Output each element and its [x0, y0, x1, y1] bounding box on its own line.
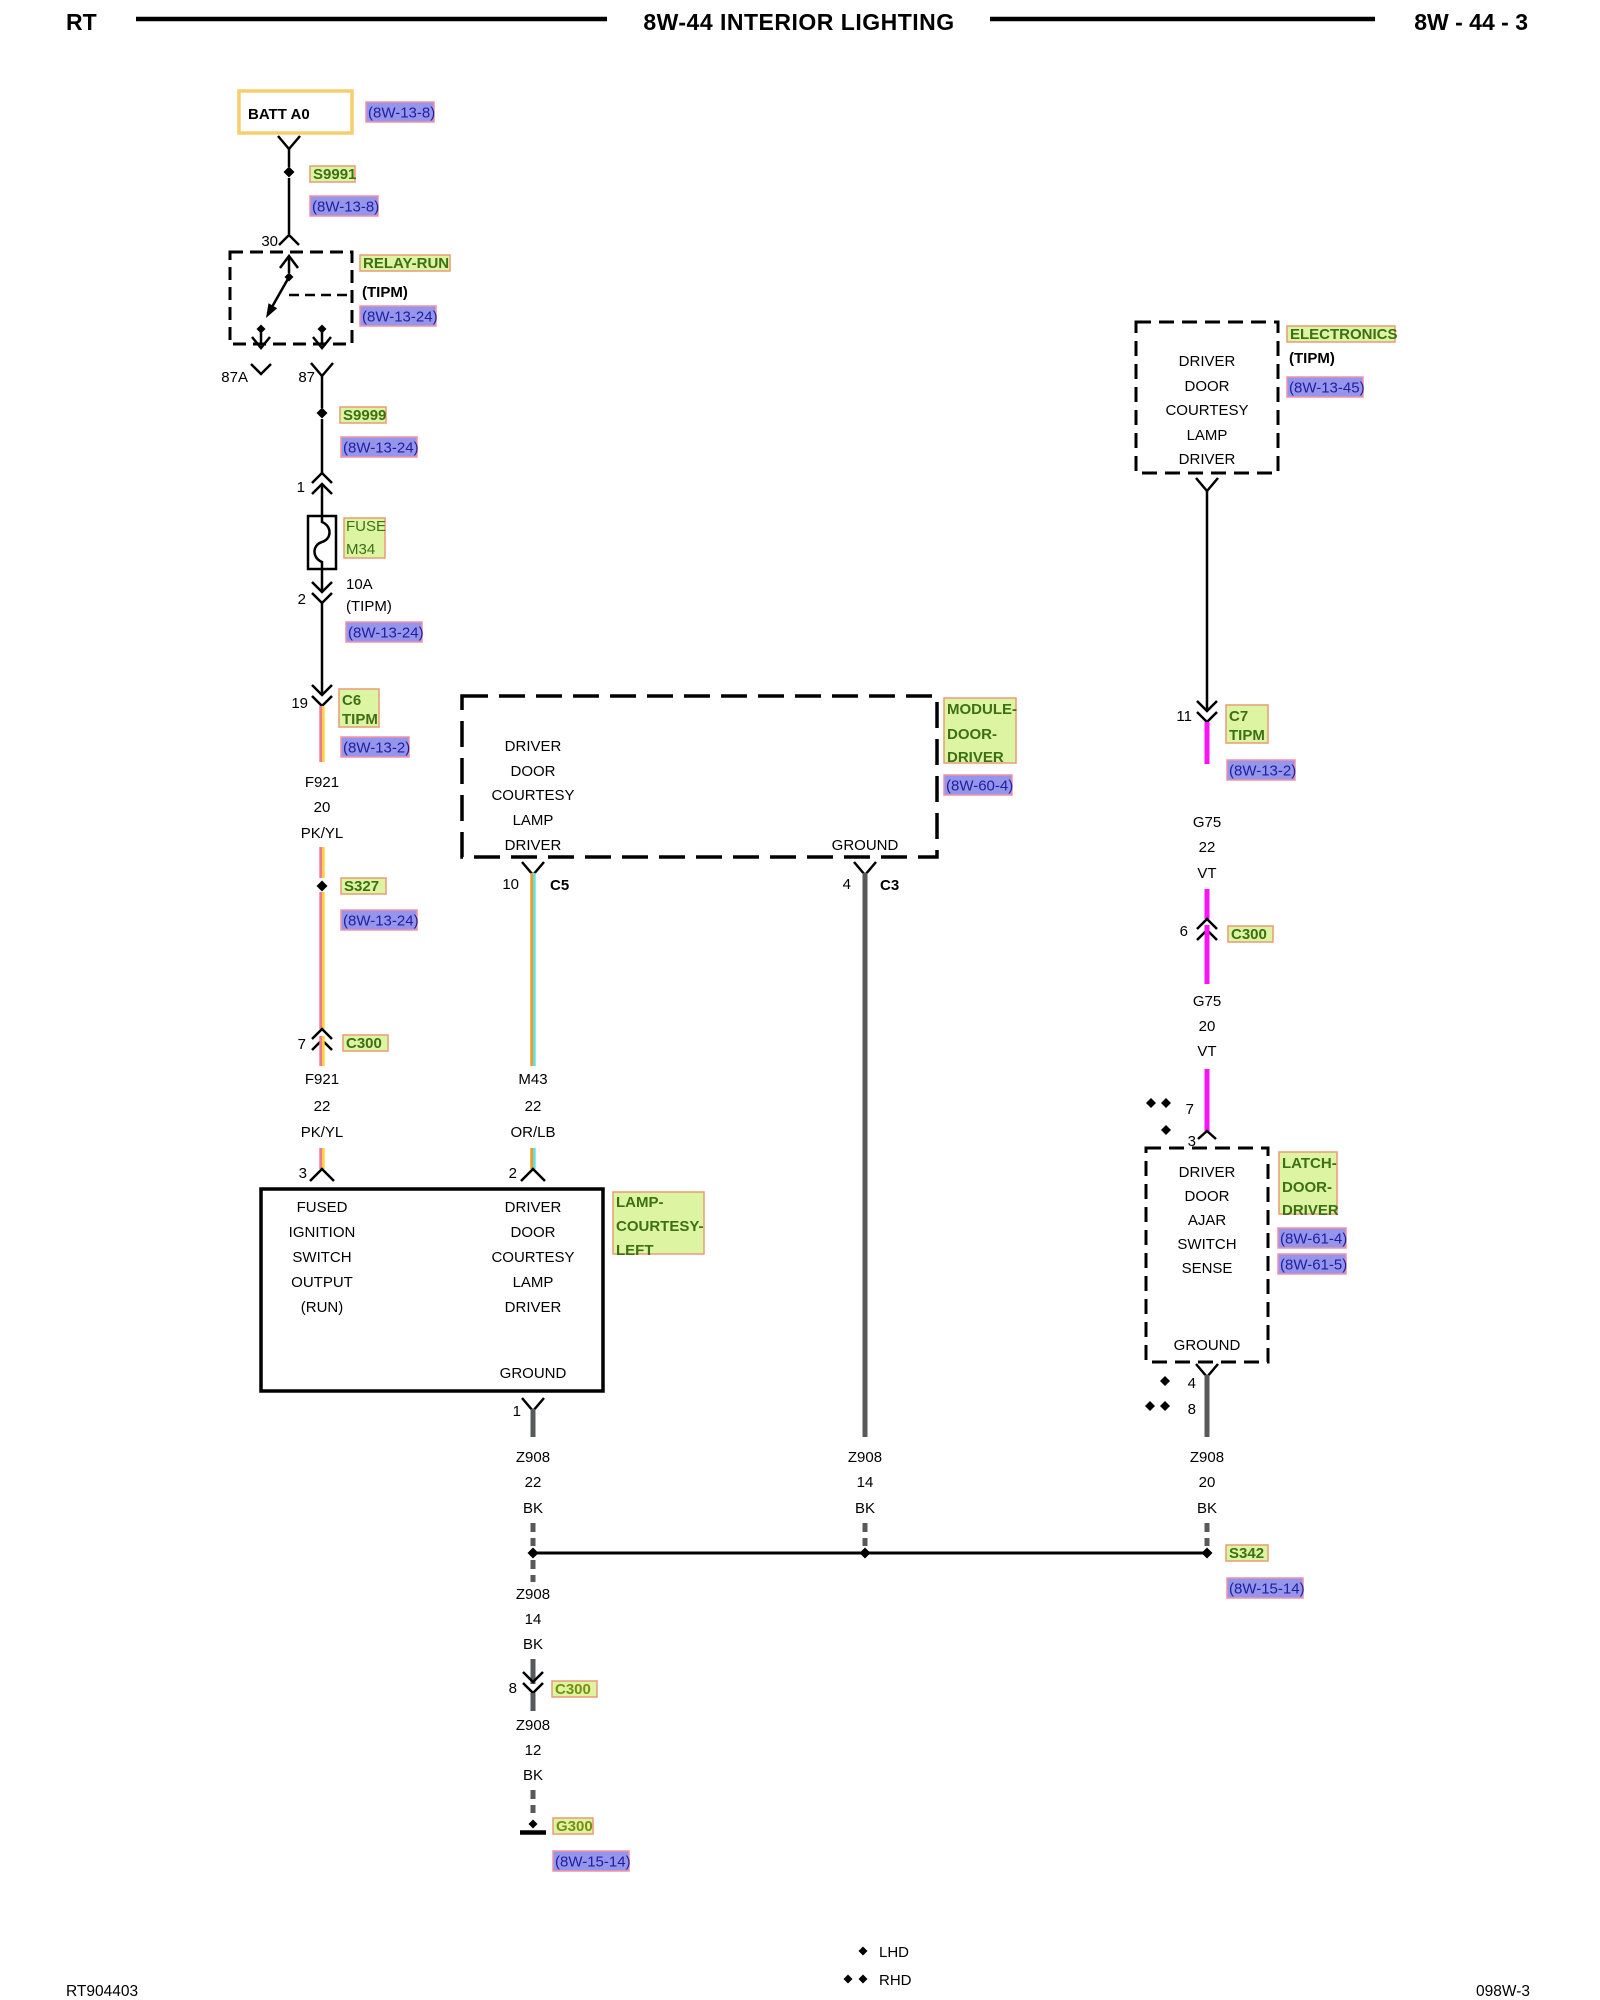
svg-text:20: 20: [1199, 1018, 1216, 1035]
wire segment: [319, 847, 322, 878]
svg-text:8: 8: [509, 1680, 517, 1697]
svg-text:RHD: RHD: [879, 1972, 912, 1989]
svg-text:LEFT: LEFT: [616, 1242, 654, 1259]
ground G300: [529, 1820, 538, 1829]
svg-text:10A: 10A: [346, 576, 373, 593]
svg-text:TIPM: TIPM: [342, 711, 378, 728]
svg-text:20: 20: [1199, 1474, 1216, 1491]
component label RELAY-RUN: [360, 255, 450, 271]
svg-text:LAMP: LAMP: [513, 1274, 554, 1291]
svg-text:(8W-61-4): (8W-61-4): [1280, 1231, 1347, 1248]
svg-text:LATCH-: LATCH-: [1282, 1155, 1337, 1172]
svg-text:VT: VT: [1197, 865, 1216, 882]
wire M43 22 OR/LB: [530, 873, 533, 1066]
svg-text:87A: 87A: [221, 369, 248, 386]
svg-text:(8W-13-24): (8W-13-24): [348, 625, 424, 642]
wire to fuse: [321, 484, 324, 516]
svg-text:14: 14: [525, 1611, 542, 1628]
legend RHD: [844, 1975, 853, 1984]
svg-text:(8W-15-14): (8W-15-14): [555, 1854, 631, 1871]
svg-text:(8W-15-14): (8W-15-14): [1229, 1581, 1305, 1598]
svg-text:S342: S342: [1229, 1545, 1264, 1562]
svg-text:22: 22: [525, 1098, 542, 1115]
reference label (8W-13-24): [341, 437, 417, 457]
svg-text:DRIVER: DRIVER: [505, 1299, 562, 1316]
svg-text:Z908: Z908: [516, 1449, 550, 1466]
connector Y below electronics: [1196, 478, 1218, 491]
svg-text:1: 1: [297, 479, 305, 496]
svg-text:BK: BK: [523, 1500, 543, 1517]
svg-text:(TIPM): (TIPM): [362, 284, 408, 301]
svg-text:(8W-13-24): (8W-13-24): [362, 309, 438, 326]
svg-text:8: 8: [1188, 1401, 1196, 1418]
wire Z908 14 BK (module ground): [863, 873, 868, 1437]
component label MODULE-DOOR-DRIVER: [944, 698, 1016, 763]
svg-text:7: 7: [298, 1036, 306, 1053]
svg-text:ELECTRONICS: ELECTRONICS: [1290, 326, 1398, 343]
svg-text:LAMP-: LAMP-: [616, 1194, 664, 1211]
svg-text:C6: C6: [342, 692, 361, 709]
wire Z908 20 BK: [1205, 1375, 1210, 1437]
svg-text:22: 22: [525, 1474, 542, 1491]
svg-text:(8W-13-2): (8W-13-2): [1229, 763, 1296, 780]
svg-text:GROUND: GROUND: [1174, 1337, 1241, 1354]
svg-text:IGNITION: IGNITION: [289, 1224, 356, 1241]
svg-text:G75: G75: [1193, 814, 1221, 831]
svg-text:DOOR-: DOOR-: [1282, 1179, 1332, 1196]
svg-text:3: 3: [299, 1165, 307, 1182]
svg-text:PK/YL: PK/YL: [301, 1124, 344, 1141]
svg-text:DOOR: DOOR: [1185, 378, 1230, 395]
svg-text:M43: M43: [518, 1071, 547, 1088]
svg-text:C7: C7: [1229, 708, 1248, 725]
latch pin 3: [1198, 1131, 1216, 1139]
reference label (8W-13-24): [341, 910, 417, 930]
svg-text:DRIVER: DRIVER: [505, 837, 562, 854]
svg-text:LAMP: LAMP: [1187, 427, 1228, 444]
svg-text:VT: VT: [1197, 1043, 1216, 1060]
svg-text:Z908: Z908: [1190, 1449, 1224, 1466]
svg-text:BK: BK: [1197, 1500, 1217, 1517]
svg-text:(RUN): (RUN): [301, 1299, 344, 1316]
svg-text:1: 1: [513, 1403, 521, 1420]
svg-text:C300: C300: [1231, 926, 1267, 943]
svg-text:MODULE-: MODULE-: [947, 701, 1017, 718]
svg-text:G75: G75: [1193, 993, 1221, 1010]
svg-text:M34: M34: [346, 541, 375, 558]
wire S9999 to fuse pin 1: [321, 419, 324, 473]
lamp LAMP-COURTESY-LEFT box: [261, 1189, 603, 1391]
reference label (8W-13-2): [341, 737, 409, 757]
svg-text:87: 87: [298, 369, 315, 386]
svg-text:SENSE: SENSE: [1182, 1260, 1233, 1277]
svg-text:7: 7: [1186, 1101, 1194, 1118]
svg-text:(8W-13-45): (8W-13-45): [1289, 380, 1365, 397]
svg-text:RT904403: RT904403: [66, 1983, 138, 2000]
svg-text:(8W-13-24): (8W-13-24): [343, 913, 419, 930]
svg-text:(8W-13-2): (8W-13-2): [343, 740, 410, 757]
svg-text:C5: C5: [550, 877, 569, 894]
svg-text:DRIVER: DRIVER: [505, 738, 562, 755]
svg-text:RT: RT: [66, 9, 97, 35]
svg-text:PK/YL: PK/YL: [301, 825, 344, 842]
RHD pin 7 marker: [1146, 1098, 1156, 1108]
wire segment: [319, 1036, 322, 1066]
LHD pin 3 marker: [1161, 1125, 1171, 1135]
svg-text:8W - 44 - 3: 8W - 44 - 3: [1414, 9, 1528, 35]
svg-text:Z908: Z908: [516, 1586, 550, 1603]
component label ELECTRONICS: [1287, 326, 1395, 342]
reference label (8W-13-24): [346, 622, 422, 642]
wire segment: [319, 1148, 322, 1169]
svg-text:BATT A0: BATT A0: [248, 106, 310, 123]
svg-text:DRIVER: DRIVER: [1179, 353, 1236, 370]
svg-text:GROUND: GROUND: [500, 1365, 567, 1382]
svg-text:DOOR: DOOR: [511, 763, 556, 780]
legend LHD: [859, 1947, 868, 1956]
wire F921 20 PK/YL segment: [319, 706, 322, 762]
wire electronics to C7: [1206, 491, 1209, 711]
svg-text:F921: F921: [305, 774, 339, 791]
svg-text:COURTESY: COURTESY: [1165, 402, 1248, 419]
wire Z908 12 BK: [531, 1693, 536, 1711]
svg-text:2: 2: [298, 591, 306, 608]
svg-text:SWITCH: SWITCH: [1177, 1236, 1236, 1253]
svg-text:FUSED: FUSED: [297, 1199, 348, 1216]
svg-text:DOOR-: DOOR-: [947, 726, 997, 743]
svg-text:AJAR: AJAR: [1188, 1212, 1227, 1229]
svg-text:20: 20: [314, 799, 331, 816]
component label LATCH-DOOR-DRIVER: [1279, 1152, 1337, 1214]
wire 87 to S9999: [321, 376, 324, 408]
svg-text:S9991: S9991: [313, 166, 356, 183]
svg-text:Z908: Z908: [848, 1449, 882, 1466]
splice S327: [317, 881, 328, 892]
relay RELAY-RUN (TIPM): [230, 252, 352, 344]
svg-text:6: 6: [1180, 923, 1188, 940]
svg-text:C300: C300: [346, 1035, 382, 1052]
svg-text:S9999: S9999: [343, 407, 386, 424]
svg-text:(TIPM): (TIPM): [346, 598, 392, 615]
svg-text:LHD: LHD: [879, 1944, 909, 1961]
module MODULE-DOOR-DRIVER box: [462, 696, 937, 857]
svg-text:TIPM: TIPM: [1229, 727, 1265, 744]
svg-text:G300: G300: [556, 1818, 593, 1835]
switch LATCH-DOOR-DRIVER box: [1146, 1148, 1268, 1362]
splice junction left: [528, 1548, 539, 1559]
reference label (8W-13-8): [310, 196, 378, 216]
reference label (8W-13-2): [1227, 760, 1295, 780]
svg-text:DRIVER: DRIVER: [947, 749, 1004, 766]
svg-text:BK: BK: [855, 1500, 875, 1517]
svg-text:22: 22: [1199, 839, 1216, 856]
svg-text:11: 11: [1176, 708, 1192, 725]
wire fuse to TIPM C6 pin 19: [321, 603, 324, 695]
reference label (8W-60-4): [944, 775, 1012, 795]
latch ground pins 4 / 8: [1196, 1364, 1218, 1377]
splice S9991: [284, 167, 295, 178]
svg-text:C3: C3: [880, 877, 899, 894]
reference label (8W-15-14): [553, 1851, 629, 1871]
svg-text:BK: BK: [523, 1767, 543, 1784]
svg-text:SWITCH: SWITCH: [292, 1249, 351, 1266]
svg-text:RELAY-RUN: RELAY-RUN: [363, 255, 449, 272]
svg-text:22: 22: [314, 1098, 331, 1115]
svg-text:(8W-61-5): (8W-61-5): [1280, 1257, 1347, 1274]
svg-text:F921: F921: [305, 1071, 339, 1088]
wire G75 20 VT: [1205, 925, 1210, 984]
reference label (8W-61-5): [1278, 1254, 1346, 1274]
svg-text:30: 30: [261, 233, 278, 250]
svg-text:LAMP: LAMP: [513, 812, 554, 829]
reference label (8W-13-8): [366, 102, 434, 122]
component label LAMP-COURTESY-LEFT: [613, 1192, 704, 1254]
reference label (8W-61-4): [1278, 1228, 1346, 1248]
svg-text:2: 2: [509, 1165, 517, 1182]
svg-text:FUSE: FUSE: [346, 518, 386, 535]
wire Z908 22 BK: [531, 1409, 536, 1437]
wire Z908 14 BK below splice: [531, 1560, 536, 1582]
svg-text:(8W-60-4): (8W-60-4): [946, 778, 1013, 795]
svg-text:098W-3: 098W-3: [1476, 1983, 1530, 2000]
svg-text:8W-44 INTERIOR LIGHTING: 8W-44 INTERIOR LIGHTING: [643, 9, 954, 35]
reference label (8W-13-45): [1287, 377, 1363, 397]
wire BATT A0 to S9991: [288, 149, 291, 167]
svg-text:(8W-13-8): (8W-13-8): [312, 199, 379, 216]
wire G75 22 VT: [1205, 722, 1210, 764]
svg-text:(8W-13-8): (8W-13-8): [368, 105, 435, 122]
wire S9991 to relay pin 30: [288, 178, 291, 234]
svg-text:DOOR: DOOR: [511, 1224, 556, 1241]
splice junction on ground bus: [860, 1548, 871, 1559]
reference label (8W-13-24): [360, 306, 436, 326]
svg-text:(TIPM): (TIPM): [1289, 350, 1335, 367]
svg-text:C300: C300: [555, 1681, 591, 1698]
splice S342: [1202, 1548, 1213, 1559]
battery feed BATT A0: [239, 91, 352, 133]
connector Y below BATT A0: [278, 136, 300, 149]
svg-text:OR/LB: OR/LB: [510, 1124, 555, 1141]
svg-text:COURTESY: COURTESY: [491, 1249, 574, 1266]
wire segment: [530, 1148, 533, 1169]
svg-text:10: 10: [502, 876, 519, 893]
svg-text:GROUND: GROUND: [832, 837, 899, 854]
svg-text:COURTESY-: COURTESY-: [616, 1218, 704, 1235]
fuse M34 10A: [308, 516, 336, 569]
svg-text:Z908: Z908: [516, 1717, 550, 1734]
svg-text:4: 4: [843, 876, 851, 893]
splice S9999: [317, 408, 328, 419]
svg-text:19: 19: [291, 695, 308, 712]
svg-text:12: 12: [525, 1742, 542, 1759]
module ELECTRONICS (TIPM) box: [1136, 322, 1278, 473]
wire S327 to C300 pin 7: [319, 892, 322, 1029]
svg-text:(8W-13-24): (8W-13-24): [343, 440, 419, 457]
svg-text:DOOR: DOOR: [1185, 1188, 1230, 1205]
fuse label FUSE M34: [344, 518, 385, 558]
svg-text:DRIVER: DRIVER: [505, 1199, 562, 1216]
svg-text:4: 4: [1188, 1375, 1196, 1392]
svg-text:COURTESY: COURTESY: [491, 787, 574, 804]
svg-text:OUTPUT: OUTPUT: [291, 1274, 353, 1291]
svg-text:S327: S327: [344, 878, 379, 895]
reference label (8W-15-14): [1227, 1578, 1303, 1598]
ground bus wire: [533, 1552, 1207, 1555]
svg-text:14: 14: [857, 1474, 874, 1491]
svg-text:DRIVER: DRIVER: [1179, 1164, 1236, 1181]
svg-text:DRIVER: DRIVER: [1282, 1202, 1339, 1219]
svg-text:BK: BK: [523, 1636, 543, 1653]
svg-text:DRIVER: DRIVER: [1179, 451, 1236, 468]
